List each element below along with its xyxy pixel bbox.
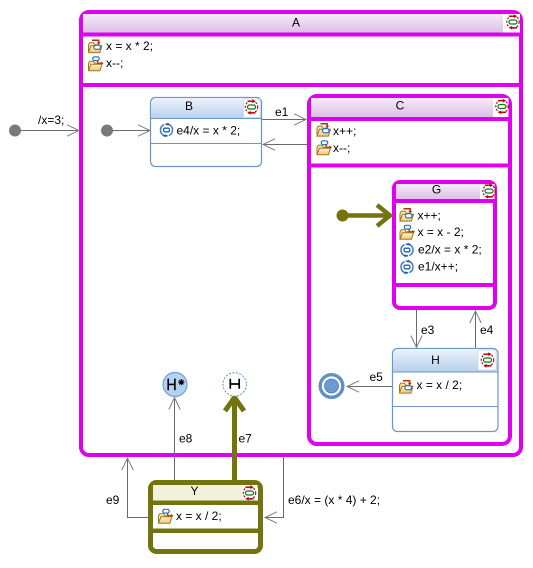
- divider C1: [309, 117, 510, 121]
- state C: [309, 96, 510, 444]
- submachine icon of B: [245, 99, 257, 114]
- exit action of C: [317, 141, 350, 155]
- wire default transition to B: [113, 130, 151, 132]
- state B: [151, 98, 262, 167]
- submachine icon of Y: [243, 485, 255, 500]
- svg-text:B: B: [185, 99, 193, 113]
- wire default transition to A: [21, 130, 80, 132]
- initial pseudostate (outer): [9, 125, 21, 137]
- svg-text:x = x - 2;: x = x - 2;: [418, 225, 464, 239]
- svg-text:e3: e3: [421, 323, 435, 337]
- svg-text:G: G: [432, 183, 441, 197]
- reaction e1 of G: [401, 260, 458, 275]
- divider G1: [394, 199, 495, 203]
- submachine icon of G: [483, 183, 495, 198]
- wire transition e6 A to Y: [265, 456, 284, 518]
- divider Y2: [150, 529, 261, 534]
- divider A1: [81, 33, 521, 37]
- divider C2: [309, 164, 510, 168]
- svg-text:x++;: x++;: [418, 209, 441, 223]
- svg-text:x--;: x--;: [106, 56, 123, 70]
- svg-text:/x=3;: /x=3;: [38, 113, 64, 127]
- history pseudostate H: [223, 373, 246, 396]
- svg-text:Y: Y: [190, 484, 198, 498]
- wire transition e5 H to termination: [347, 386, 392, 388]
- svg-text:e2/x = x * 2;: e2/x = x * 2;: [418, 243, 482, 257]
- wire transition e8 Y to deep history: [174, 399, 176, 480]
- entry action of H: [400, 378, 463, 393]
- wire transition e7 Y to history (selected): [232, 402, 237, 480]
- deep history pseudostate H*: [163, 373, 187, 397]
- reaction e4 of B: [160, 123, 240, 138]
- entry action of C: [317, 124, 356, 138]
- svg-text:A: A: [292, 16, 300, 30]
- svg-text:e6/x = (x * 4) + 2;: e6/x = (x * 4) + 2;: [288, 493, 380, 507]
- state G: [394, 182, 495, 308]
- initial pseudostate (inner A): [101, 125, 113, 137]
- wire transition e1 B to C: [262, 119, 306, 121]
- svg-text:e9: e9: [106, 493, 120, 507]
- submachine icon of C: [496, 99, 508, 114]
- termination connector: [320, 375, 343, 398]
- exit action of G: [400, 225, 464, 239]
- svg-text:x = x / 2;: x = x / 2;: [176, 509, 222, 523]
- divider A2: [81, 83, 521, 87]
- wire default transition to G (selected): [348, 213, 389, 218]
- svg-text:x--;: x--;: [333, 141, 350, 155]
- svg-text:x = x * 2;: x = x * 2;: [106, 39, 153, 53]
- entry action of A: [89, 39, 154, 53]
- state Y: [151, 483, 261, 552]
- exit action of A: [89, 56, 124, 71]
- svg-text:C: C: [396, 99, 405, 113]
- svg-text:e4/x = x * 2;: e4/x = x * 2;: [177, 124, 241, 138]
- reaction e2 of G: [401, 243, 482, 258]
- svg-text:e5: e5: [370, 370, 384, 384]
- svg-text:e8: e8: [179, 432, 193, 446]
- state A: [81, 12, 521, 455]
- svg-text:x++;: x++;: [333, 124, 356, 138]
- svg-text:e1/x++;: e1/x++;: [418, 260, 458, 274]
- wire transition e9 Y to A: [128, 459, 149, 518]
- submachine icon of A: [507, 14, 519, 29]
- transition C to B: [263, 144, 307, 146]
- submachine icon of H: [481, 352, 493, 367]
- svg-text:e4: e4: [480, 323, 494, 337]
- entry action of G: [400, 209, 441, 223]
- state H: [393, 349, 499, 432]
- exit action of Y: [159, 509, 222, 523]
- svg-text:x = x / 2;: x = x / 2;: [417, 378, 463, 392]
- svg-text:H: H: [431, 353, 440, 367]
- divider Y1: [150, 501, 261, 506]
- svg-text:e7: e7: [239, 432, 253, 446]
- svg-text:e1: e1: [275, 105, 289, 119]
- wire transition e3 G to H: [416, 310, 418, 346]
- wire transition e4 H to G: [475, 312, 477, 348]
- divider G2: [394, 283, 495, 287]
- initial pseudostate (inner C, selected): [337, 210, 349, 222]
